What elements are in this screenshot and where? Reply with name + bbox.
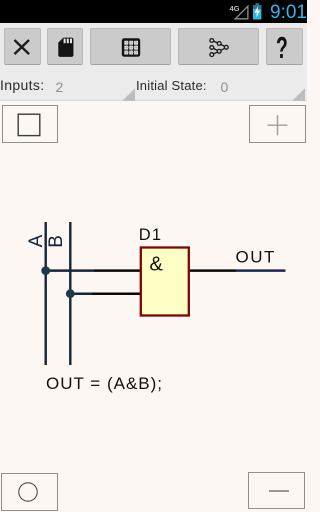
svg-text:OUT = (A&B);: OUT = (A&B); [46,374,163,393]
svg-text:D1: D1 [139,226,163,244]
svg-text:&: & [150,254,164,276]
svg-text:B: B [46,235,67,248]
svg-text:OUT: OUT [236,248,276,267]
svg-text:A: A [26,234,47,247]
